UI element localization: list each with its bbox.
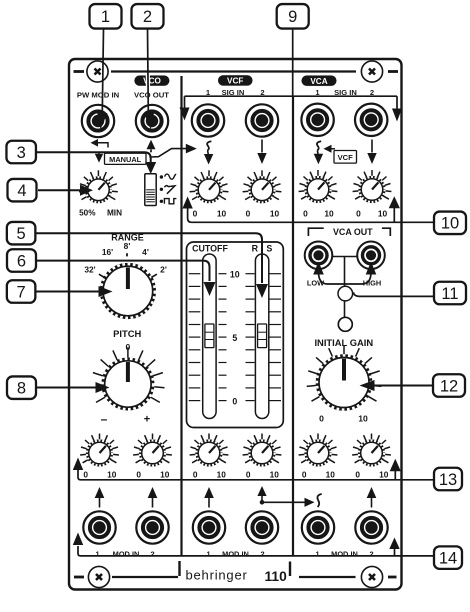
svg-text:10: 10 [441, 215, 459, 233]
svg-text:13: 13 [439, 471, 457, 489]
svg-text:2: 2 [150, 549, 154, 558]
svg-text:10: 10 [107, 469, 117, 479]
svg-text:VCA OUT: VCA OUT [333, 227, 373, 237]
svg-text:10: 10 [217, 469, 227, 479]
svg-text:14: 14 [439, 549, 457, 567]
svg-text:PW MOD IN: PW MOD IN [77, 90, 120, 99]
svg-text:S: S [266, 243, 272, 253]
svg-text:2: 2 [260, 549, 264, 558]
svg-text:0: 0 [136, 469, 141, 479]
svg-text:–: – [101, 412, 108, 426]
svg-text:6: 6 [17, 252, 26, 270]
svg-text:10: 10 [217, 208, 227, 218]
svg-text:10: 10 [326, 469, 336, 479]
svg-text:10: 10 [230, 270, 240, 280]
svg-text:0: 0 [302, 469, 307, 479]
svg-text:0: 0 [246, 208, 251, 218]
svg-text:0: 0 [355, 469, 360, 479]
svg-text:2: 2 [369, 549, 373, 558]
svg-text:VCO OUT: VCO OUT [134, 90, 169, 99]
svg-text:11: 11 [441, 285, 458, 303]
svg-text:1: 1 [95, 549, 99, 558]
svg-text:R: R [252, 243, 259, 253]
svg-text:CUTOFF: CUTOFF [192, 243, 228, 253]
svg-text:16': 16' [102, 247, 113, 257]
svg-text:12: 12 [440, 377, 458, 395]
svg-text:50%: 50% [79, 209, 96, 218]
svg-text:VCA: VCA [310, 77, 327, 86]
svg-text:32': 32' [84, 265, 95, 275]
svg-text:10: 10 [270, 208, 280, 218]
svg-text:MOD IN: MOD IN [222, 549, 249, 558]
svg-text:3: 3 [17, 144, 26, 162]
svg-text:0: 0 [193, 208, 198, 218]
svg-text:7: 7 [17, 283, 26, 301]
svg-text:9: 9 [288, 8, 297, 26]
svg-text:1: 1 [315, 549, 319, 558]
svg-text:10: 10 [379, 469, 389, 479]
svg-text:4: 4 [17, 182, 26, 200]
svg-text:MOD IN: MOD IN [331, 549, 358, 558]
svg-text:0: 0 [319, 414, 324, 424]
svg-text:10: 10 [324, 208, 334, 218]
svg-text:4': 4' [142, 247, 149, 257]
svg-text:0: 0 [83, 469, 88, 479]
svg-text:0: 0 [232, 396, 237, 406]
svg-text:0: 0 [356, 208, 361, 218]
svg-text:1: 1 [206, 549, 210, 558]
svg-text:VCF: VCF [338, 153, 354, 162]
svg-text:8: 8 [17, 380, 26, 398]
svg-text:10: 10 [378, 208, 388, 218]
svg-text:8': 8' [124, 241, 131, 251]
svg-text:10: 10 [160, 469, 170, 479]
svg-text:MOD IN: MOD IN [113, 549, 140, 558]
svg-text:+: + [144, 414, 150, 426]
svg-text:10: 10 [358, 414, 368, 424]
svg-text:MIN: MIN [107, 209, 122, 218]
svg-text:5: 5 [17, 225, 26, 243]
svg-text:2: 2 [143, 8, 152, 26]
svg-text:behringer: behringer [186, 568, 248, 583]
svg-text:5: 5 [232, 333, 237, 343]
svg-text:0: 0 [246, 469, 251, 479]
svg-text:0: 0 [193, 469, 198, 479]
svg-text:0: 0 [303, 208, 308, 218]
svg-text:PITCH: PITCH [113, 328, 141, 339]
svg-text:110: 110 [265, 569, 288, 584]
svg-text:1: 1 [101, 8, 110, 26]
svg-text:VCF: VCF [227, 77, 243, 86]
svg-text:MANUAL: MANUAL [109, 155, 142, 164]
svg-text:10: 10 [270, 469, 280, 479]
svg-text:2': 2' [160, 265, 167, 275]
